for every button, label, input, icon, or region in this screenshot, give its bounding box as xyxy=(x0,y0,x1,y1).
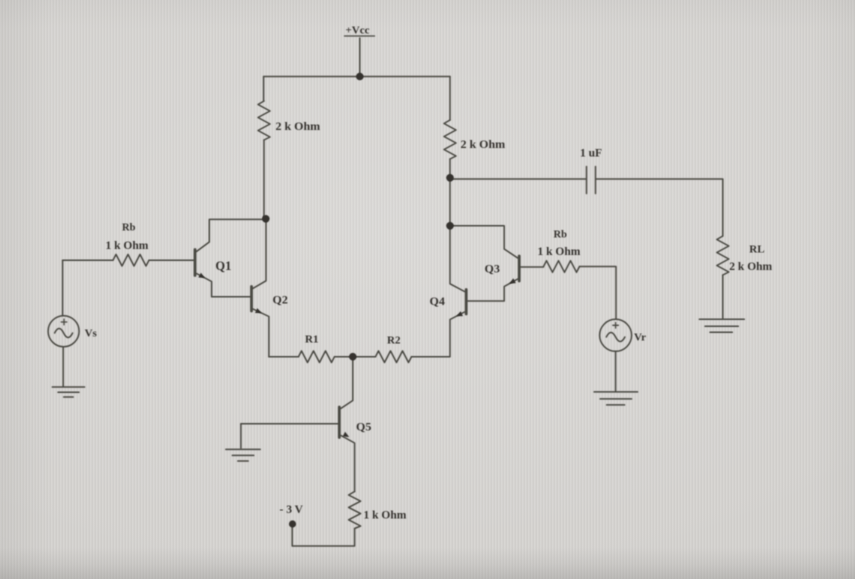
svg-text:Q3: Q3 xyxy=(485,262,500,276)
svg-text:Q1: Q1 xyxy=(215,259,231,273)
svg-text:Q4: Q4 xyxy=(430,294,445,308)
svg-text:R1: R1 xyxy=(305,334,318,346)
svg-text:Rb: Rb xyxy=(554,230,568,241)
svg-text:+Vcc: +Vcc xyxy=(346,25,370,37)
svg-text:- 3 V: - 3 V xyxy=(280,504,304,516)
svg-text:1 k Ohm: 1 k Ohm xyxy=(364,510,407,522)
svg-text:R2: R2 xyxy=(387,335,401,347)
svg-text:2 k Ohm: 2 k Ohm xyxy=(729,261,772,273)
svg-text:RL: RL xyxy=(749,244,764,256)
svg-text:1 k Ohm: 1 k Ohm xyxy=(538,246,581,258)
svg-text:Vs: Vs xyxy=(85,328,98,340)
svg-text:1 uF: 1 uF xyxy=(580,148,602,160)
svg-text:1 k Ohm: 1 k Ohm xyxy=(106,240,149,252)
svg-text:Q2: Q2 xyxy=(273,293,288,307)
svg-text:Vr: Vr xyxy=(634,332,646,344)
svg-text:2 k Ohm: 2 k Ohm xyxy=(276,119,321,133)
svg-text:2 k Ohm: 2 k Ohm xyxy=(461,137,506,151)
svg-text:Q5: Q5 xyxy=(356,420,371,434)
svg-text:Rb: Rb xyxy=(122,223,136,234)
